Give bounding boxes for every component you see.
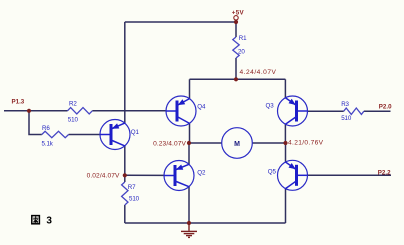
junction node ground rail [187, 221, 191, 225]
wire R1 bottom to bridge rail [235, 58, 237, 79]
svg-text:3: 3 [46, 216, 52, 227]
wire +5V node down to R1 [235, 22, 237, 37]
svg-text:4.24/4.07V: 4.24/4.07V [240, 69, 277, 76]
wire R7 bottom to ground rail [124, 205, 126, 223]
svg-text:R2: R2 [69, 101, 77, 108]
wire R2 run to Q4 base [29, 110, 68, 112]
svg-text:Q4: Q4 [197, 103, 206, 110]
wire top rail to +5V node [125, 21, 236, 23]
wire motor-right node down to Q5 emitter [285, 143, 287, 162]
wire Q1 emitter up to +5V rail [124, 22, 126, 123]
wire P1.3 input horizontal [4, 110, 29, 112]
svg-text:20: 20 [238, 48, 245, 55]
junction node motor left [187, 141, 191, 145]
junction node R1 / bridge rail [234, 77, 238, 81]
wire rail stub down to Q4 emitter [189, 79, 191, 98]
wire Q2 collector down to ground rail [188, 187, 190, 223]
transistor Q4 [166, 96, 206, 126]
svg-text:P1.3: P1.3 [12, 98, 25, 105]
svg-text:Q2: Q2 [197, 170, 206, 177]
svg-text:R6: R6 [42, 125, 50, 132]
wire Q2-base node down to R7 [124, 175, 126, 182]
junction node motor right [283, 141, 287, 145]
svg-text:M: M [234, 141, 240, 148]
svg-text:R3: R3 [341, 101, 349, 108]
wire Q5 collector down to ground rail [285, 189, 287, 223]
motor M [222, 128, 253, 159]
transistor Q3 [266, 96, 308, 126]
junction node +5V rail [234, 20, 238, 24]
wire motor-left node to motor [189, 142, 222, 144]
svg-text:0.23/4.07V: 0.23/4.07V [153, 140, 186, 147]
svg-text:510: 510 [68, 116, 79, 123]
wire bottom ground rail [125, 222, 286, 224]
svg-text:5.1k: 5.1k [42, 140, 54, 147]
junction node P1.3 branch [27, 109, 31, 113]
svg-text:R7: R7 [128, 184, 136, 191]
wire R6 to Q1 base [69, 134, 100, 136]
svg-text:510: 510 [129, 196, 140, 203]
transistor Q5 [268, 160, 308, 190]
wire motor-left node down to Q2 emitter [188, 143, 190, 164]
wire Q3 collector down to motor-right node [284, 124, 286, 143]
caption figure 3 [32, 216, 53, 227]
resistor R7 [122, 182, 128, 205]
ground [181, 223, 197, 237]
svg-text:Q1: Q1 [131, 129, 140, 136]
wire Q2-base node to Q2 base [125, 174, 164, 176]
wire Q3 base to R3 [308, 110, 344, 112]
svg-text:R1: R1 [239, 35, 247, 42]
wire bridge top rail [190, 78, 286, 80]
svg-text:P2.2: P2.2 [378, 170, 391, 177]
svg-text:P2.0: P2.0 [379, 104, 392, 111]
resistor R1 [233, 37, 239, 58]
resistor R6 [42, 131, 69, 137]
svg-text:0.02/4.07V: 0.02/4.07V [87, 172, 120, 179]
wire motor right to motor-right node [252, 142, 285, 144]
svg-text:510: 510 [341, 115, 352, 122]
wire P1.3 branch down [29, 111, 42, 135]
resistor R3 [344, 108, 364, 114]
svg-text:Q3: Q3 [266, 103, 275, 110]
transistor Q1 [100, 120, 140, 150]
transistor Q2 [164, 161, 206, 191]
svg-text:+5V: +5V [232, 10, 245, 17]
wire Q4 collector to motor-left node [189, 123, 191, 143]
svg-text:4.21/0.76V: 4.21/0.76V [288, 139, 324, 146]
svg-text:Q5: Q5 [268, 169, 277, 176]
power +5V terminal [232, 10, 245, 22]
wire Q1 collector down to Q2-base node [124, 146, 126, 175]
wire Q5 base to P2.2 [308, 174, 392, 176]
resistor R2 [68, 108, 93, 114]
wire R3 to P2.0 [364, 110, 391, 112]
junction node Q2 base / R7 [123, 173, 127, 177]
wire rail stub down to Q3 emitter [284, 79, 286, 98]
